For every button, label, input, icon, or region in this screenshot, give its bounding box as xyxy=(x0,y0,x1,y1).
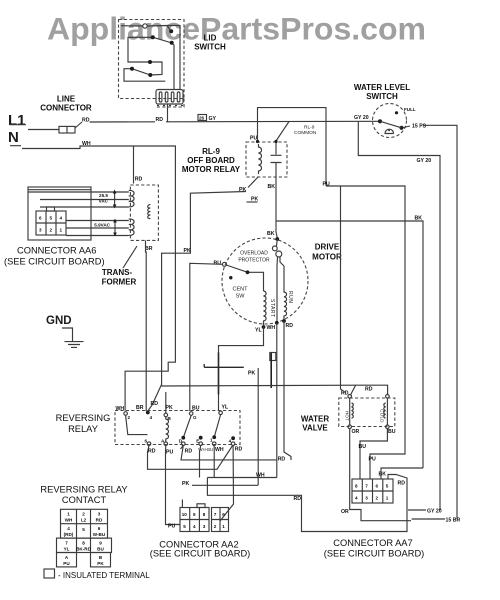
svg-text:PU: PU xyxy=(168,524,175,530)
svg-text:RD: RD xyxy=(135,177,143,183)
svg-text:PU: PU xyxy=(323,181,330,187)
svg-text:BK: BK xyxy=(415,215,423,221)
svg-text:RD: RD xyxy=(151,401,159,407)
svg-text:YL: YL xyxy=(222,405,229,411)
svg-text:RD: RD xyxy=(365,387,373,393)
line connector symbol xyxy=(59,126,75,133)
svg-text:BK: BK xyxy=(267,231,275,237)
svg-text:BU: BU xyxy=(388,429,396,435)
svg-text:RD: RD xyxy=(185,449,193,455)
svg-text:MOTOR: MOTOR xyxy=(312,253,342,262)
transformer assembly xyxy=(28,187,91,240)
svg-text:OR: OR xyxy=(352,429,360,435)
svg-text:5: 5 xyxy=(386,484,389,489)
svg-text:3: 3 xyxy=(98,512,101,517)
relay internal t2 arm xyxy=(126,416,148,435)
svg-text:G: G xyxy=(193,415,197,420)
L1 wire xyxy=(10,125,59,146)
water valve RD bridge wire xyxy=(351,385,388,395)
run winding xyxy=(284,266,287,320)
svg-text:4: 4 xyxy=(60,216,63,221)
contact arm xyxy=(380,121,402,128)
relay contact arms G YL xyxy=(183,415,220,438)
svg-text:RD: RD xyxy=(286,323,294,329)
svg-text:26: 26 xyxy=(199,115,205,120)
svg-text:7: 7 xyxy=(65,541,68,546)
WH line bottom xyxy=(207,477,276,479)
svg-text:2: 2 xyxy=(128,415,131,420)
RL-9 coil xyxy=(259,144,262,174)
label GY 20 bottom right xyxy=(408,508,442,514)
svg-text:3: 3 xyxy=(203,524,206,529)
svg-text:GY 20: GY 20 xyxy=(354,115,369,121)
svg-text:3: 3 xyxy=(365,496,368,501)
svg-text:RD: RD xyxy=(294,496,302,502)
wire BK from RL-9 down to motor xyxy=(276,177,278,239)
svg-text:W-BU: W-BU xyxy=(93,532,106,537)
lid switch contact dots xyxy=(130,29,174,77)
svg-text:OFF BOARD: OFF BOARD xyxy=(187,156,235,165)
start winding xyxy=(264,291,267,325)
wire BK to AA7 xyxy=(381,468,423,479)
svg-text:COMMON: COMMON xyxy=(294,130,317,136)
svg-text:BU: BU xyxy=(359,444,367,450)
svg-text:PU: PU xyxy=(63,561,70,566)
svg-text:RD: RD xyxy=(82,117,90,123)
svg-text:(SEE CIRCUIT BOARD): (SEE CIRCUIT BOARD) xyxy=(150,549,251,559)
svg-text:CONNECTOR AA6: CONNECTOR AA6 xyxy=(17,246,96,256)
motor BK entry dot xyxy=(275,237,279,241)
svg-text:6: 6 xyxy=(145,439,148,444)
transformer primary windings xyxy=(129,190,134,235)
svg-text:SWITCH: SWITCH xyxy=(194,43,226,52)
svg-text:RD: RD xyxy=(96,518,103,523)
svg-text:(SEE CIRCUIT BOARD): (SEE CIRCUIT BOARD) xyxy=(4,257,105,267)
wire RD from AA7 pin5 xyxy=(207,475,407,532)
wire BR transformer to reversing relay xyxy=(145,240,148,411)
PK line bottom xyxy=(192,484,258,486)
svg-text:- INSULATED TERMINAL: - INSULATED TERMINAL xyxy=(58,571,150,580)
water level switch contacts xyxy=(378,111,404,130)
svg-text:RELAY: RELAY xyxy=(68,424,98,434)
cold solenoid xyxy=(380,398,388,425)
svg-text:GND: GND xyxy=(46,315,72,327)
motor main vertical (start branch) xyxy=(276,257,279,323)
svg-text:PK: PK xyxy=(184,248,191,254)
svg-text:1: 1 xyxy=(222,524,225,529)
svg-text:YL: YL xyxy=(255,328,262,334)
svg-text:LINE: LINE xyxy=(57,95,76,104)
run top jog xyxy=(280,257,284,266)
wire PU long from bump to AA7 xyxy=(326,186,405,479)
transformer box xyxy=(130,185,158,240)
relay RL-9 dashed box xyxy=(246,142,287,177)
svg-text:PROTECTOR: PROTECTOR xyxy=(238,258,270,264)
label [26] GY xyxy=(198,115,217,122)
relay terminal 4 dot xyxy=(146,411,150,415)
svg-text:RD: RD xyxy=(235,446,243,452)
wires AA6 to transformer xyxy=(28,192,129,236)
svg-text:4: 4 xyxy=(229,439,232,444)
svg-text:PK: PK xyxy=(166,405,173,411)
svg-text:VAC: VAC xyxy=(99,199,109,204)
svg-text:RD: RD xyxy=(148,449,156,455)
svg-text:15 PS: 15 PS xyxy=(412,124,427,130)
PU bump wire over GY line xyxy=(258,108,327,186)
svg-text:PU: PU xyxy=(166,449,173,455)
svg-text:(SEE CIRCUIT BOARD): (SEE CIRCUIT BOARD) xyxy=(324,549,425,559)
cent sw arm xyxy=(226,265,263,291)
reversing relay dashed box xyxy=(115,411,240,445)
svg-text:8: 8 xyxy=(203,512,206,517)
svg-text:L1: L1 xyxy=(8,112,26,129)
svg-text:1: 1 xyxy=(210,438,213,443)
svg-text:SWITCH: SWITCH xyxy=(366,92,398,101)
svg-text:YL: YL xyxy=(64,547,70,552)
svg-text:MOTOR RELAY: MOTOR RELAY xyxy=(182,165,241,174)
svg-text:BU: BU xyxy=(192,406,200,412)
svg-text:WH: WH xyxy=(65,518,73,523)
25.5 VAC label with arrows xyxy=(99,190,117,209)
svg-text:HOT: HOT xyxy=(344,411,349,421)
wire RD tD to label xyxy=(181,446,277,460)
cent sw dots xyxy=(229,270,249,279)
lid switch connector xyxy=(156,90,183,106)
svg-text:LID: LID xyxy=(204,34,217,43)
wire BK to right xyxy=(276,221,423,468)
svg-text:4: 4 xyxy=(67,526,70,531)
svg-text:RL-9: RL-9 xyxy=(304,125,315,131)
svg-text:2: 2 xyxy=(82,512,85,517)
transformer secondary winding xyxy=(148,204,151,218)
svg-text:WH: WH xyxy=(82,141,91,147)
svg-text:VALVE: VALVE xyxy=(302,424,328,433)
cent sw contact circle xyxy=(223,262,227,266)
svg-text:6: 6 xyxy=(376,484,379,489)
RL-9 contact symbol xyxy=(271,142,282,177)
wire RD from motor down xyxy=(284,321,291,460)
wire diagonal to RL-9 common terminal xyxy=(276,122,289,142)
svg-text:6: 6 xyxy=(39,216,42,221)
svg-text:9: 9 xyxy=(99,541,102,546)
svg-text:WH: WH xyxy=(215,447,224,453)
wire GY 20 down path xyxy=(358,122,440,511)
svg-text:REVERSING: REVERSING xyxy=(56,413,111,423)
lid switch contact terminal (open circle) xyxy=(143,24,147,28)
water valve terminals xyxy=(348,395,389,429)
svg-text:GY 20: GY 20 xyxy=(427,508,442,514)
svg-text:5: 5 xyxy=(50,216,53,221)
svg-text:WH: WH xyxy=(267,325,276,331)
svg-text:BR: BR xyxy=(145,246,153,252)
svg-text:25.5: 25.5 xyxy=(99,193,108,198)
svg-text:PK: PK xyxy=(182,481,189,487)
svg-text:10: 10 xyxy=(182,512,188,517)
RL-9 terminals xyxy=(256,140,278,143)
svg-text:1: 1 xyxy=(60,228,63,233)
svg-text:PU: PU xyxy=(369,457,376,463)
svg-text:7: 7 xyxy=(214,512,217,517)
svg-text:BK-RD: BK-RD xyxy=(76,547,91,552)
svg-text:TRANS-: TRANS- xyxy=(102,268,133,277)
lid switch internal wires xyxy=(121,26,180,91)
svg-text:WATER: WATER xyxy=(301,415,330,424)
ground symbol xyxy=(62,328,84,347)
svg-text:PK: PK xyxy=(97,561,104,566)
svg-text:GY 20: GY 20 xyxy=(417,158,432,164)
svg-text:RD: RD xyxy=(156,117,164,123)
svg-text:L2: L2 xyxy=(81,518,87,523)
hot solenoid xyxy=(344,398,353,425)
svg-text:RUN: RUN xyxy=(287,291,293,303)
svg-text:OR: OR xyxy=(341,509,349,515)
wire RD from line connector xyxy=(75,122,155,128)
svg-text:SW: SW xyxy=(236,294,246,300)
overload protector contacts xyxy=(272,239,281,257)
relay bottom terminals xyxy=(147,442,235,446)
svg-text:5: 5 xyxy=(82,527,85,532)
wire RD/GY main to water level switch xyxy=(166,120,379,123)
svg-text:BK: BK xyxy=(379,472,387,478)
svg-text:2: 2 xyxy=(376,496,379,501)
svg-text:AppliancePartsPros.com: AppliancePartsPros.com xyxy=(47,11,426,47)
svg-text:E: E xyxy=(196,439,199,444)
callout line transformer xyxy=(123,246,137,268)
svg-text:CONNECTOR: CONNECTOR xyxy=(40,104,92,113)
svg-text:9: 9 xyxy=(193,512,196,517)
svg-text:BK: BK xyxy=(268,184,276,190)
svg-text:5.9VAC: 5.9VAC xyxy=(94,223,110,228)
bell symbol xyxy=(385,129,394,133)
svg-text:4: 4 xyxy=(355,496,358,501)
wire PK mid vertical xyxy=(257,368,259,485)
svg-text:START: START xyxy=(269,299,275,317)
svg-text:8: 8 xyxy=(82,541,85,546)
relay top terminals open circles xyxy=(124,411,223,417)
svg-text:RD: RD xyxy=(398,480,406,486)
svg-text:7: 7 xyxy=(365,484,368,489)
svg-text:OVERLOAD: OVERLOAD xyxy=(240,251,268,257)
svg-text:6: 6 xyxy=(98,526,101,531)
svg-text:8: 8 xyxy=(355,484,358,489)
svg-text:1: 1 xyxy=(67,512,70,517)
svg-text:PK: PK xyxy=(239,187,246,193)
insulated terminal legend xyxy=(44,569,150,580)
svg-text:FULL: FULL xyxy=(404,107,416,112)
svg-text:FORMER: FORMER xyxy=(102,278,137,287)
water valve dashed box xyxy=(339,398,395,427)
diag tD to RD line xyxy=(181,446,183,460)
main RD horizontal wire xyxy=(162,384,356,387)
wire BU valve to AA7 xyxy=(360,429,387,479)
relay arm dots xyxy=(181,435,235,440)
motor bottom contact dots xyxy=(262,319,286,329)
connector AA7 xyxy=(352,479,393,503)
wire tE down xyxy=(200,446,201,478)
relay coil xyxy=(166,417,169,442)
wire PK from RL-9 coil xyxy=(162,177,259,386)
svg-text:PK: PK xyxy=(248,371,255,377)
svg-text:RL-9: RL-9 xyxy=(202,147,220,156)
drive motor dashed circle xyxy=(222,238,308,324)
crossover bold tick xyxy=(270,353,272,388)
svg-text:15 BR: 15 BR xyxy=(446,518,461,524)
svg-text:BR: BR xyxy=(136,405,144,411)
svg-text:4: 4 xyxy=(150,415,153,420)
svg-text:WATER LEVEL: WATER LEVEL xyxy=(354,83,410,92)
wire branch down to valve RD xyxy=(341,186,347,393)
svg-text:3: 3 xyxy=(39,228,42,233)
wire stub AA2 xyxy=(181,500,183,508)
wire YL from motor xyxy=(219,327,264,410)
water level switch dashed circle xyxy=(373,104,407,138)
lid switch assembly dashed box xyxy=(119,20,185,108)
wire 15 PS to right and down xyxy=(404,125,458,519)
connector AA2 xyxy=(180,504,229,532)
N wire xyxy=(22,146,175,411)
svg-text:1: 1 xyxy=(386,496,389,501)
svg-text:WH: WH xyxy=(256,473,265,479)
svg-text:CONNECTOR AA7: CONNECTOR AA7 xyxy=(333,538,412,548)
svg-text:CENT: CENT xyxy=(233,287,249,293)
svg-text:PK: PK xyxy=(251,196,258,202)
label 15 BR bottom right xyxy=(412,518,461,524)
svg-text:CONTACT: CONTACT xyxy=(62,495,107,505)
wire BU from motor to relay xyxy=(190,263,223,411)
5.9VAC label with arrow xyxy=(94,219,117,237)
wire lid switch connector to L1 wire xyxy=(167,104,169,122)
connector AA6 xyxy=(36,207,66,235)
wire PU tA down to AA2 xyxy=(166,446,181,525)
svg-text:2: 2 xyxy=(50,228,53,233)
svg-text:N: N xyxy=(8,129,19,146)
svg-text:DRIVE: DRIVE xyxy=(315,243,340,252)
svg-text:COLD: COLD xyxy=(380,409,385,422)
svg-text:5: 5 xyxy=(183,524,186,529)
wire t4 down xyxy=(220,446,234,521)
svg-text:RD: RD xyxy=(278,457,286,463)
insulated terminal on WH wire xyxy=(270,353,276,361)
reversing relay contact table xyxy=(57,509,112,567)
svg-text:GY: GY xyxy=(209,116,217,122)
wire RD t6 down xyxy=(148,446,233,470)
svg-text:BU: BU xyxy=(97,547,104,552)
wire OR from valve down xyxy=(350,429,411,521)
svg-text:WH: WH xyxy=(116,406,125,412)
wire PK second xyxy=(247,201,258,203)
wire t1 WH down xyxy=(213,446,215,478)
svg-text:6: 6 xyxy=(222,512,225,517)
crossover tick horizontal xyxy=(204,364,244,367)
svg-text:(RD): (RD) xyxy=(64,532,74,537)
svg-text:REVERSING RELAY: REVERSING RELAY xyxy=(40,485,127,495)
svg-text:2: 2 xyxy=(214,524,217,529)
wire WH from motor down xyxy=(276,323,278,478)
svg-text:4: 4 xyxy=(193,524,196,529)
main RD left vertical xyxy=(149,384,162,410)
